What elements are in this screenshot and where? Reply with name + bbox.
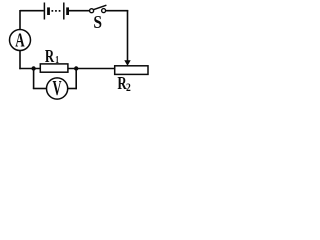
wire voltmeter branch right horizontal [68, 88, 77, 90]
wire left vertical from ammeter to bottom-left corner [19, 50, 21, 69]
battery GB short thick plate 1 [47, 7, 50, 15]
svg-text:V: V [53, 77, 62, 100]
battery GB short thick plate 2 [66, 7, 69, 15]
rheostat label R2 subscript [126, 82, 131, 94]
ammeter A circle [10, 30, 31, 51]
battery GB long plate 1 [43, 3, 45, 20]
wire voltmeter branch right vertical [75, 69, 77, 90]
wire battery to switch [69, 10, 90, 12]
rheostat R2 slider arrowhead [124, 60, 130, 66]
junction node left (R1/V) [31, 66, 35, 70]
wire right vertical down to rheostat slider [127, 10, 129, 61]
voltmeter V circle [47, 78, 68, 99]
wire voltmeter branch left vertical [33, 69, 35, 90]
battery dotted middle (more cells) [52, 10, 63, 12]
resistor label R1 subscript [55, 55, 59, 67]
wire left vertical down to ammeter [19, 10, 21, 30]
svg-text:2: 2 [126, 82, 131, 94]
svg-text:S: S [93, 12, 102, 32]
wire top-left segment to battery [20, 10, 44, 12]
resistor R1 box [40, 64, 68, 72]
wire bottom-left to resistor R1 [19, 68, 40, 70]
switch S left contact circle [90, 9, 94, 13]
battery GB long plate 2 [63, 3, 65, 20]
svg-text:1: 1 [55, 55, 59, 67]
ammeter label A [15, 29, 25, 52]
rheostat label R2 [117, 74, 127, 93]
switch label S [93, 12, 102, 32]
switch S blade [93, 5, 106, 10]
wire switch to top-right corner [106, 10, 129, 12]
resistor label R1 [45, 47, 55, 66]
wire voltmeter branch left horizontal [33, 88, 47, 90]
switch S right contact circle [102, 9, 106, 13]
svg-text:R: R [45, 47, 55, 66]
rheostat R2 box [115, 66, 148, 75]
svg-text:A: A [15, 29, 25, 52]
wire R1 to junction right [68, 68, 115, 70]
junction node right (R1/V) [74, 66, 78, 70]
voltmeter label V [53, 77, 62, 100]
